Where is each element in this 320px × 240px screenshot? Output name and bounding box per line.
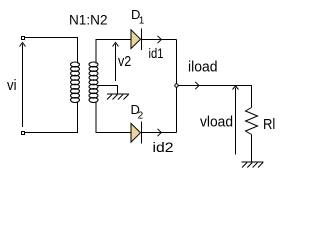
wire output bus [176, 40, 178, 133]
wire top-left (source to primary) [25, 38, 78, 64]
source terminal bottom [21, 131, 25, 135]
wire resistor to ground [251, 135, 253, 163]
iload arrow [195, 82, 199, 89]
svg-text:vload: vload [200, 114, 233, 131]
transformer T1 primary winding [71, 62, 80, 103]
ground (center tap) [107, 94, 129, 100]
svg-text:N1:N2: N1:N2 [69, 12, 108, 28]
svg-text:1: 1 [139, 16, 145, 27]
transformer T1 secondary winding [89, 62, 98, 103]
v2 arrow [113, 43, 119, 82]
resistor Rl [246, 108, 258, 135]
svg-text:id1: id1 [149, 45, 164, 61]
source terminal top [21, 36, 25, 40]
svg-text:v2: v2 [118, 53, 131, 70]
diode D1 [131, 28, 142, 49]
node junction [175, 84, 178, 87]
svg-text:iload: iload [188, 59, 218, 76]
wire center tap [98, 86, 118, 95]
wire bottom-left (source to primary) [25, 102, 78, 133]
ground (load) [242, 162, 264, 168]
wire D2 output [142, 132, 177, 134]
wire D1 output [142, 39, 177, 41]
vload arrow [233, 86, 239, 155]
wire secondary top (to D1) [96, 40, 131, 64]
svg-text:vi: vi [7, 77, 17, 94]
wire iload (junction to resistor) [178, 86, 251, 108]
id2 arrow [158, 129, 162, 136]
svg-text:Rl: Rl [263, 116, 275, 133]
id1 arrow [158, 36, 162, 43]
vi arrow [20, 43, 26, 128]
svg-text:id2: id2 [153, 139, 174, 155]
diode D2 [131, 122, 142, 144]
wire secondary bottom (to D2) [96, 102, 131, 133]
svg-text:2: 2 [138, 111, 144, 122]
